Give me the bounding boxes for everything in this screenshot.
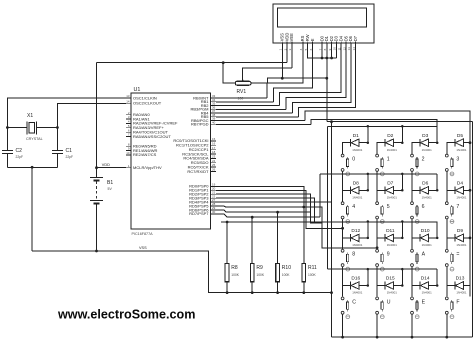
junction dot R8 bus [226, 291, 229, 294]
push button 1 bottom terminal [376, 169, 379, 172]
capacitor C1 top lead [56, 128, 58, 151]
junction dot crystal left [6, 126, 9, 129]
svg-text:2: 2 [422, 157, 425, 163]
PIC right pin 29 RD6/PSP6 [211, 209, 217, 211]
PIC right pin 30 RD7/PSP7 [211, 213, 217, 215]
PIC right pin 38 RB5 [211, 116, 217, 118]
push button = top terminal [445, 249, 448, 252]
PIC right pin 34 RB1 [211, 101, 217, 103]
PIC left pin 7 RA5/AN4/SS/C2OUT [126, 136, 131, 138]
wire D16 cathode to button [343, 286, 351, 297]
svg-text:18: 18 [212, 150, 216, 154]
svg-text:6: 6 [422, 204, 425, 210]
PIC left pin 3 RA1/AN1 [126, 118, 131, 120]
junction dot anode D14 [436, 284, 439, 287]
svg-text:1N4001: 1N4001 [422, 243, 433, 247]
diode D11 cathode bar [384, 234, 386, 242]
svg-text:1N4001: 1N4001 [422, 148, 433, 152]
junction dot D0 [321, 57, 324, 60]
svg-text:D1: D1 [353, 133, 359, 139]
push button U bottom terminal [376, 311, 379, 314]
resistor R9 top lead [251, 217, 253, 263]
svg-text:25: 25 [212, 163, 216, 167]
svg-text:U1: U1 [134, 87, 141, 93]
push button 9 bottom terminal [376, 264, 379, 267]
push button U actuator [381, 300, 383, 302]
junction dot caps common [31, 166, 34, 169]
diode D5 triangle [455, 139, 463, 147]
junction dot ring left [330, 120, 333, 123]
keypad row 1 line [328, 125, 438, 127]
wire D6 cathode to button [412, 190, 420, 201]
capacitor C1 plates [52, 149, 63, 151]
svg-text:100: 100 [238, 97, 244, 101]
wire button E column segment [411, 314, 413, 337]
push button 0 actuator [347, 157, 349, 159]
wire button A column segment [411, 267, 413, 297]
resistor R10 top lead [277, 212, 279, 263]
wire button 9 column segment [376, 267, 378, 297]
wire button 2 column segment [411, 172, 413, 202]
diode D3 cathode bar [419, 139, 421, 147]
push button 8 actuator [347, 252, 349, 254]
junction dot crystal right [56, 126, 59, 129]
svg-text:1N4001: 1N4001 [387, 148, 398, 152]
LCD pin 14 stub [355, 42, 357, 44]
svg-text:1N4001: 1N4001 [422, 291, 433, 295]
wire RD6 merge line y212 [216, 210, 311, 212]
junction dot anode D15 [401, 284, 404, 287]
junction dot column1 feed [341, 227, 344, 230]
svg-text:www.electroSome.com: www.electroSome.com [57, 308, 195, 322]
svg-text:MCLR/Vpp/THV: MCLR/Vpp/THV [133, 165, 162, 170]
svg-text:D4: D4 [457, 181, 463, 187]
button 2 marker [415, 172, 419, 176]
wire row 1 and row 4 feed riser [327, 126, 329, 269]
diode D14 cathode bar [419, 282, 421, 290]
LCD pin 5 stub [307, 42, 309, 44]
resistor R9 body [250, 264, 254, 282]
svg-text:7: 7 [456, 204, 459, 210]
svg-text:C: C [352, 299, 356, 305]
PIC right pin 35 RB2 [211, 105, 217, 107]
svg-text:D9: D9 [457, 228, 463, 234]
svg-text:1N4001: 1N4001 [456, 148, 467, 152]
PIC right pin 27 RD4/PSP4 [211, 201, 217, 203]
junction dot column 3 ground [411, 336, 414, 339]
wire RB2 horizontal [216, 105, 280, 107]
push button E top terminal [411, 297, 414, 300]
push button A actuator [416, 252, 418, 254]
push button C actuator [347, 300, 349, 302]
wire D10 anode to row line [429, 222, 438, 238]
LCD pin 9 stub [331, 42, 333, 44]
svg-text:D5: D5 [457, 133, 463, 139]
junction dot row 4 col 1 [367, 268, 370, 271]
PIC left pin 2 RA0/AN0 [126, 114, 131, 116]
push button 3 top terminal [445, 154, 448, 157]
wire D0 down to ground link [321, 43, 323, 58]
svg-text:RE2/AN7/CS: RE2/AN7/CS [133, 152, 157, 157]
svg-text:40: 40 [212, 120, 216, 124]
resistor R9 bottom lead [251, 282, 253, 293]
LCD pin 10 stub [335, 42, 337, 44]
junction dot D1 wire on ground line [325, 77, 328, 80]
wire RB3 horizontal [216, 108, 286, 110]
wire D9 cathode to button [447, 238, 455, 249]
push button 1 actuator [381, 157, 383, 159]
PIC right pin 36 RB3/PGM [211, 108, 217, 110]
button 1 marker [380, 172, 384, 176]
diode D12 triangle [351, 234, 359, 242]
svg-text:R10: R10 [282, 265, 291, 271]
diode D10 triangle [420, 234, 428, 242]
potentiometer RV1 body [235, 81, 251, 85]
push button A bottom terminal [411, 264, 414, 267]
svg-text:5V: 5V [108, 187, 113, 191]
resistor R8 body [225, 264, 229, 282]
svg-text:=: = [456, 252, 459, 258]
wire D5 anode to right feed [463, 142, 470, 144]
wire VDD pin2 down [286, 43, 288, 63]
wire D13 cathode to button [447, 286, 455, 297]
junction dot anode D2 [401, 141, 404, 144]
svg-text:14: 14 [126, 99, 130, 103]
crystal right plate [36, 122, 38, 135]
battery B1 bottom lead [96, 203, 98, 251]
push button = bottom terminal [445, 264, 448, 267]
microcontroller U1 PIC16F877A body [131, 93, 211, 229]
wire D2 down [331, 43, 333, 58]
wire D3 anode to row line [429, 126, 438, 142]
svg-text:16: 16 [212, 141, 216, 145]
svg-text:10: 10 [126, 151, 130, 155]
wire D11 anode to row line [394, 222, 403, 238]
diode D10 cathode bar [419, 234, 421, 242]
wire RB7 level line to keypad row 1 [311, 120, 437, 127]
wire D15 cathode to button [377, 286, 385, 297]
svg-text:1N4001: 1N4001 [352, 196, 363, 200]
svg-text:100K: 100K [231, 273, 240, 277]
svg-text:R11: R11 [308, 265, 317, 271]
diode D16 cathode bar [350, 282, 352, 290]
svg-text:E: E [422, 299, 426, 305]
svg-text:A: A [422, 252, 426, 258]
svg-text:D14: D14 [421, 276, 430, 282]
wire RD1 descent to column1 feed [216, 190, 343, 228]
junction dot VSS on ground line [281, 77, 284, 80]
LCD pin 3 stub [291, 42, 293, 44]
button 7 marker [450, 220, 454, 224]
svg-text:1N4001: 1N4001 [422, 196, 433, 200]
diode D6 triangle [420, 187, 428, 195]
crystal X1 body [29, 123, 35, 134]
button U marker [380, 315, 384, 319]
wire D1 down long to keypad ring [326, 43, 328, 122]
svg-text:D2: D2 [387, 133, 393, 139]
keypad row 3 line [328, 221, 438, 223]
svg-text:100K: 100K [282, 273, 291, 277]
svg-text:RV1: RV1 [237, 89, 247, 95]
svg-text:23: 23 [212, 155, 216, 159]
svg-text:1N4001: 1N4001 [352, 148, 363, 152]
svg-text:D8: D8 [353, 181, 359, 187]
junction dot R9 pulldown [251, 216, 254, 219]
PIC right pin 33 RB0/INT [211, 97, 217, 99]
junction dot row 3 col 1 [367, 220, 370, 223]
wire D8 anode to row line [359, 174, 368, 190]
wire D4 anode to right feed [463, 189, 470, 191]
wire button = column segment [446, 267, 448, 297]
wire keypad bottom ground bus [332, 336, 473, 338]
diode D11 triangle [386, 234, 394, 242]
wire keypad ground ring right [472, 122, 474, 337]
wire D8 cathode to button [343, 190, 351, 201]
svg-text:13: 13 [126, 94, 130, 98]
junction dot anode D11 [401, 237, 404, 240]
LCD pin 13 stub [350, 42, 352, 44]
keypad row 2 line [320, 173, 437, 175]
junction dot row 1 col 1 [367, 125, 370, 128]
button C marker [346, 315, 350, 319]
capacitor C2 top lead [6, 128, 8, 151]
wire y207 line to cascade [304, 207, 377, 248]
LCD pin 8 stub [326, 42, 328, 44]
svg-text:X1: X1 [27, 113, 33, 119]
push button 6 bottom terminal [411, 216, 414, 219]
svg-text:1N4001: 1N4001 [387, 243, 398, 247]
PIC left pin 6 RA4/T0CKI/C1OUT [126, 131, 131, 133]
wire D14 cathode to button [412, 286, 420, 297]
PIC left pin 10 RE2/AN7/CS [126, 154, 131, 156]
button 0 marker [346, 172, 350, 176]
diode D13 triangle [455, 282, 463, 290]
push button = actuator [451, 252, 453, 254]
wire D10 cathode to button [412, 238, 420, 249]
wire RD5 merge line y207 [216, 206, 304, 207]
diode D6 cathode bar [419, 187, 421, 195]
wire RD3 descent to row 3 line [216, 198, 314, 222]
wire VEE pin3 down [291, 43, 293, 68]
wire RV1 right terminal to ground line [251, 78, 327, 83]
capacitor C1 bottom lead [56, 153, 58, 167]
svg-text:22pF: 22pF [16, 155, 24, 159]
diode D7 triangle [386, 187, 394, 195]
push button F top terminal [445, 297, 448, 300]
push button 9 top terminal [376, 249, 379, 252]
wire RD2 descent [216, 194, 322, 223]
push button 7 actuator [451, 205, 453, 207]
junction dot anode D16 [367, 284, 370, 287]
push button C bottom terminal [341, 311, 344, 314]
wire button 1 column segment [376, 172, 378, 202]
junction dot anode D1 [367, 141, 370, 144]
wire RB5 horizontal [216, 116, 299, 118]
junction dot anode D12 [367, 237, 370, 240]
svg-text:D13: D13 [456, 276, 465, 282]
PIC right pin 18 RC3/SCK/SCL [211, 153, 217, 155]
push button 8 bottom terminal [341, 264, 344, 267]
wire D7 to RB5 [299, 43, 356, 117]
svg-text:22pF: 22pF [66, 155, 74, 159]
push button 2 top terminal [411, 154, 414, 157]
svg-text:5: 5 [387, 204, 390, 210]
diode D9 triangle [455, 234, 463, 242]
diode D12 cathode bar [350, 234, 352, 242]
push button 8 top terminal [341, 249, 344, 252]
PIC right pin 28 RD5/PSP5 [211, 205, 217, 207]
junction dot anode feed D4 [469, 189, 472, 192]
junction dot anode D10 [436, 237, 439, 240]
push button 0 top terminal [341, 154, 344, 157]
wire keypad ground ring top [327, 121, 473, 123]
svg-text:PIC16F877A: PIC16F877A [132, 232, 154, 236]
junction dot anode D6 [436, 189, 439, 192]
svg-text:15: 15 [212, 137, 216, 141]
wire D12 anode to row line [359, 222, 368, 238]
wire D2 anode to row line [394, 126, 403, 142]
push button F actuator [451, 300, 453, 302]
PIC right pin 15 RC0/T1OSO/T1CKI [211, 140, 217, 142]
battery B1 plate short 2 [94, 202, 100, 204]
svg-text:C2: C2 [16, 148, 23, 154]
wire D11 cathode to button [377, 238, 385, 249]
svg-text:1N4001: 1N4001 [456, 196, 467, 200]
wire button U column segment [376, 314, 378, 337]
wire D9 anode to right feed [463, 237, 470, 239]
PIC left pin 14 OSC2/CLKOUT [126, 102, 131, 104]
svg-text:U: U [387, 299, 391, 305]
svg-text:D6: D6 [422, 181, 428, 187]
wire RB7 horizontal [216, 123, 311, 125]
svg-text:3: 3 [456, 157, 459, 163]
wire caps common bottom [7, 166, 57, 168]
svg-text:B1: B1 [107, 180, 113, 186]
diode D4 triangle [455, 187, 463, 195]
wire RB0 horizontal from PIC [216, 97, 267, 99]
PIC left pin 5 RA3/AN3/VREF+ [126, 127, 131, 129]
wire D15 anode to row line [394, 269, 403, 285]
PIC right pin 23 RC4/SDI/SDA [211, 157, 217, 159]
junction dot D2 [330, 57, 333, 60]
svg-text:D7: D7 [353, 35, 358, 41]
diode D3 triangle [420, 139, 428, 147]
PIC right pin 22 RD3/PSP3 [211, 197, 217, 199]
svg-text:D11: D11 [386, 228, 395, 234]
resistor R11 bottom lead [303, 282, 305, 293]
diode D7 cathode bar [384, 187, 386, 195]
button F marker [450, 315, 454, 319]
junction dot D1 data ground [325, 57, 328, 60]
wire button 7 column segment [446, 219, 448, 249]
junction dot VDD node [95, 166, 98, 169]
PIC right pin 37 RB4 [211, 112, 217, 114]
push button 5 actuator [381, 205, 383, 207]
wire button 3 column segment [446, 172, 448, 202]
push button 4 top terminal [341, 202, 344, 205]
push button 5 bottom terminal [376, 216, 379, 219]
wire VDD rail down left side [96, 63, 98, 168]
PIC right pin 17 RC2/CCP1 [211, 149, 217, 151]
svg-text:1N4001: 1N4001 [456, 291, 467, 295]
wire button 6 column segment [411, 219, 413, 249]
wire button 5 column segment [376, 219, 378, 249]
svg-text:E: E [310, 38, 315, 41]
wire RB1 horizontal [216, 101, 273, 103]
svg-text:D10: D10 [421, 228, 430, 234]
button E marker [415, 315, 419, 319]
svg-text:1N4001: 1N4001 [456, 243, 467, 247]
PIC right pin 39 RB6/PGC [211, 120, 217, 122]
wire RD7 merge line y217 [216, 214, 320, 217]
resistor R11 body [302, 264, 306, 282]
PIC right pin 19 RD0/PSP0 [211, 185, 217, 187]
junction dot RD0 R11 [302, 206, 305, 209]
resistor R11 top lead [303, 207, 305, 264]
diode D5 cathode bar [454, 139, 456, 147]
resistor R8 bottom lead [226, 282, 228, 293]
push button 6 actuator [416, 205, 418, 207]
battery B1 plate long 2 [90, 200, 103, 202]
LCD pin 11 stub [340, 42, 342, 44]
wire RB6 horizontal [216, 120, 305, 122]
RV1 wiper arrow [242, 79, 244, 81]
junction dot anode feed D5 [469, 141, 472, 144]
button 8 marker [346, 267, 350, 271]
PIC right pin 25 RC6/TX/CK [211, 166, 217, 168]
push button 1 top terminal [376, 154, 379, 157]
wire D6 anode to row line [429, 174, 438, 190]
svg-text:D3: D3 [422, 133, 428, 139]
svg-text:100K: 100K [256, 273, 265, 277]
svg-text:VDD: VDD [102, 163, 110, 167]
button 3 marker [450, 172, 454, 176]
wire RB6 to keypad diode anode column right side [305, 111, 470, 296]
svg-text:CRYSTAL: CRYSTAL [26, 137, 43, 141]
junction dot anode feed D9 [469, 237, 472, 240]
crystal left plate [26, 122, 28, 135]
button 4 marker [346, 220, 350, 224]
junction dot R8 pulldown [226, 221, 229, 224]
svg-text:VSS: VSS [139, 246, 147, 250]
wire RS pin4 to RB0 [267, 43, 303, 98]
junction dot row 1 col 2 [401, 125, 404, 128]
push button C top terminal [341, 297, 344, 300]
wire button F column segment [446, 314, 448, 337]
wire D1 anode to row line [359, 126, 368, 142]
battery B1 plate long 1 [90, 177, 103, 179]
wire RW pin5 down and grounded data line D0-D3 [308, 43, 337, 58]
junction dot resistor bus to keypad ground backbone [330, 291, 333, 294]
svg-text:F: F [456, 299, 459, 305]
LCD module LM016L body [273, 4, 374, 43]
svg-text:VEE: VEE [289, 33, 294, 41]
diode D1 triangle [351, 139, 359, 147]
push button 0 bottom terminal [341, 169, 344, 172]
diode D15 triangle [386, 282, 394, 290]
resistor R10 body [276, 264, 280, 282]
junction dot row 2 col 1 [367, 173, 370, 176]
diode D2 cathode bar [384, 139, 386, 147]
wire VDD to PIC MCLR pin 1 [97, 167, 127, 169]
svg-text:OSC2/CLKOUT: OSC2/CLKOUT [133, 101, 162, 106]
push button 4 actuator [347, 205, 349, 207]
keypad row 4 line [328, 268, 438, 270]
wire D1 cathode to button [343, 143, 351, 154]
junction dot R10 bus [276, 291, 279, 294]
wire row 3 line left part [221, 221, 328, 223]
wire D6 to RB4 [292, 43, 351, 113]
